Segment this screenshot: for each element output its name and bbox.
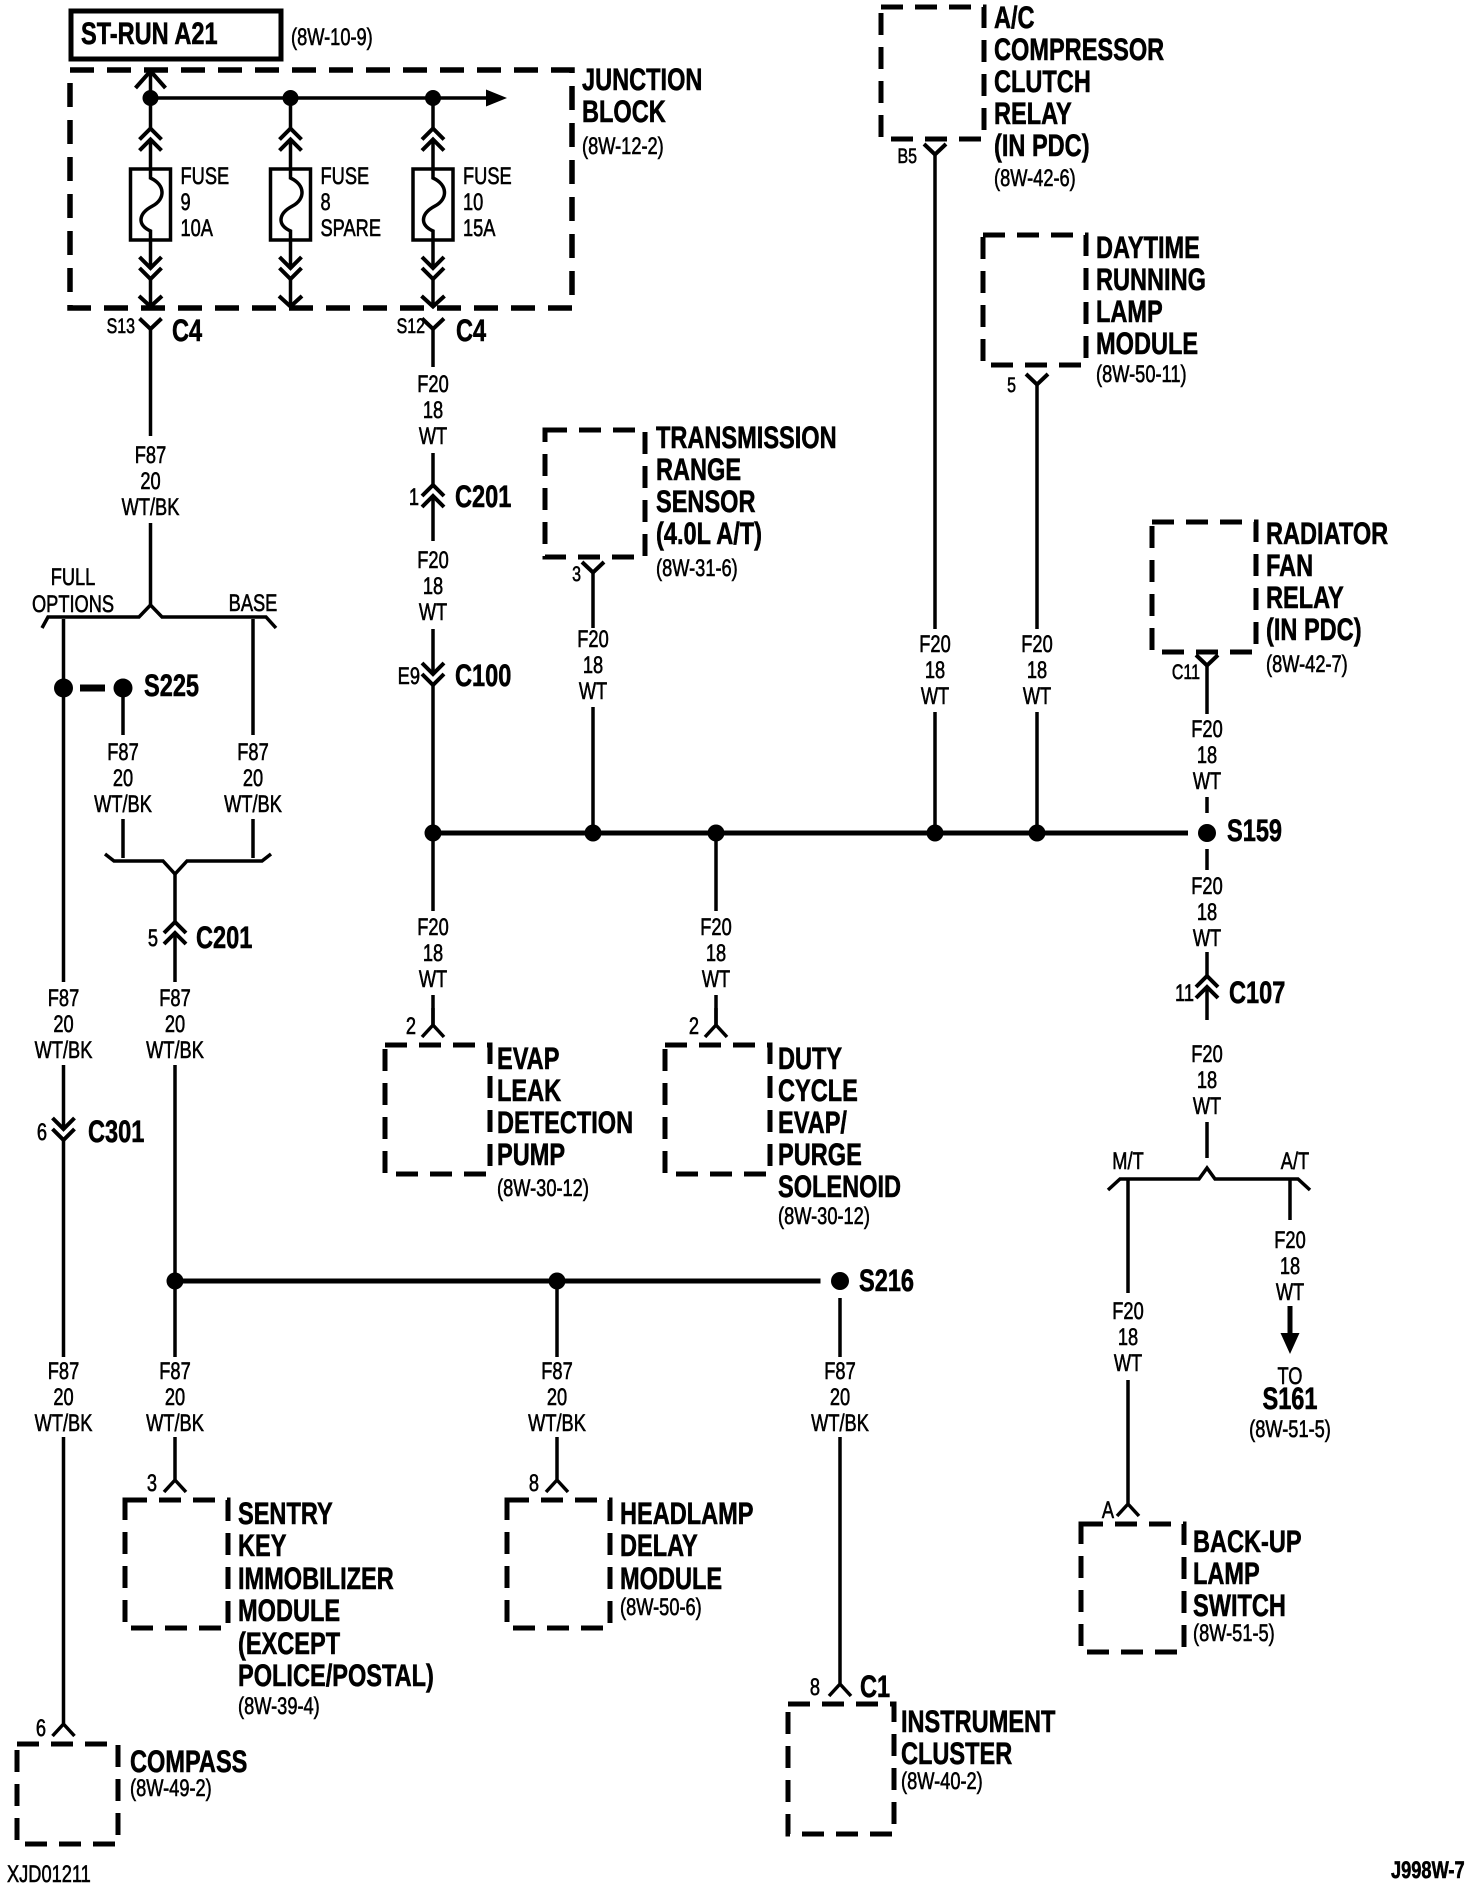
svg-text:RUNNING: RUNNING [1096,262,1206,297]
svg-text:FUSE: FUSE [463,163,512,190]
svg-text:WT: WT [702,966,731,993]
svg-text:F87: F87 [48,1358,79,1385]
svg-text:E9: E9 [398,663,420,690]
svg-text:EVAP: EVAP [497,1041,559,1076]
svg-text:(8W-42-7): (8W-42-7) [1266,651,1348,678]
svg-text:CLUSTER: CLUSTER [901,1736,1012,1771]
svg-text:1: 1 [409,484,419,511]
svg-text:18: 18 [423,573,443,600]
svg-text:18: 18 [1280,1253,1300,1280]
svg-text:F20: F20 [1191,1041,1222,1068]
svg-text:F87: F87 [159,1358,190,1385]
svg-text:6: 6 [37,1119,47,1146]
svg-text:(8W-42-6): (8W-42-6) [994,165,1076,192]
svg-text:(8W-39-4): (8W-39-4) [238,1693,320,1720]
svg-text:SOLENOID: SOLENOID [778,1169,901,1204]
svg-text:C107: C107 [1229,975,1285,1010]
svg-text:BLOCK: BLOCK [582,94,666,129]
svg-text:WT/BK: WT/BK [35,1410,93,1437]
svg-text:20: 20 [140,468,160,495]
svg-text:C4: C4 [172,313,203,348]
svg-text:3: 3 [147,1470,157,1497]
svg-text:9: 9 [181,189,191,216]
svg-text:20: 20 [830,1384,850,1411]
svg-text:FUSE: FUSE [181,163,230,190]
svg-text:18: 18 [1197,742,1217,769]
svg-text:WT: WT [419,423,448,450]
svg-text:RADIATOR: RADIATOR [1266,516,1388,551]
svg-text:XJD01211: XJD01211 [7,1861,91,1888]
svg-text:(8W-30-12): (8W-30-12) [497,1175,589,1202]
svg-text:(8W-50-11): (8W-50-11) [1096,361,1187,388]
svg-text:(8W-31-6): (8W-31-6) [656,555,738,582]
svg-text:18: 18 [1197,1067,1217,1094]
svg-text:F20: F20 [1021,631,1052,658]
svg-text:6: 6 [36,1715,46,1742]
svg-text:FUSE: FUSE [321,163,370,190]
svg-text:WT/BK: WT/BK [528,1410,586,1437]
svg-text:MODULE: MODULE [238,1593,340,1628]
svg-text:M/T: M/T [1112,1148,1144,1175]
svg-text:WT: WT [419,599,448,626]
svg-text:C201: C201 [196,920,252,955]
svg-text:COMPRESSOR: COMPRESSOR [994,32,1164,67]
svg-text:CLUTCH: CLUTCH [994,64,1091,99]
svg-text:5: 5 [1007,374,1016,397]
svg-text:F87: F87 [541,1358,572,1385]
svg-text:RELAY: RELAY [1266,580,1344,615]
svg-text:PUMP: PUMP [497,1137,565,1172]
svg-text:CYCLE: CYCLE [778,1073,858,1108]
svg-text:INSTRUMENT: INSTRUMENT [901,1704,1055,1739]
svg-text:S225: S225 [144,668,199,703]
svg-text:WT/BK: WT/BK [35,1037,93,1064]
svg-text:F20: F20 [1112,1298,1143,1325]
svg-text:20: 20 [243,765,263,792]
svg-text:F87: F87 [159,985,190,1012]
svg-text:C100: C100 [455,658,511,693]
svg-text:FAN: FAN [1266,548,1313,583]
svg-text:(8W-30-12): (8W-30-12) [778,1203,870,1230]
svg-text:KEY: KEY [238,1528,287,1563]
svg-text:WT: WT [1114,1350,1143,1377]
svg-text:WT: WT [1023,683,1052,710]
svg-text:RANGE: RANGE [656,452,741,487]
svg-text:S216: S216 [859,1263,914,1298]
svg-text:LAMP: LAMP [1096,294,1163,329]
svg-text:(EXCEPT: (EXCEPT [238,1626,340,1661]
svg-text:(8W-50-6): (8W-50-6) [620,1594,702,1621]
svg-text:C301: C301 [88,1114,144,1149]
svg-text:2: 2 [689,1013,699,1040]
svg-text:WT: WT [1276,1279,1305,1306]
svg-text:LAMP: LAMP [1193,1556,1260,1591]
svg-text:WT/BK: WT/BK [122,494,180,521]
svg-text:DELAY: DELAY [620,1528,698,1563]
svg-text:C11: C11 [1172,661,1200,684]
svg-text:F20: F20 [417,914,448,941]
svg-text:F20: F20 [919,631,950,658]
svg-text:IMMOBILIZER: IMMOBILIZER [238,1561,394,1596]
svg-text:FULL: FULL [51,564,96,591]
svg-text:(8W-51-5): (8W-51-5) [1193,1620,1275,1647]
svg-text:8: 8 [810,1674,820,1701]
svg-text:SENTRY: SENTRY [238,1496,333,1531]
svg-text:WT/BK: WT/BK [94,791,152,818]
svg-text:A/T: A/T [1281,1148,1310,1175]
svg-text:TRANSMISSION: TRANSMISSION [656,420,837,455]
svg-text:BACK-UP: BACK-UP [1193,1524,1302,1559]
svg-text:2: 2 [406,1013,416,1040]
svg-text:F87: F87 [237,739,268,766]
svg-text:WT: WT [921,683,950,710]
svg-text:C1: C1 [860,1669,890,1704]
svg-text:A/C: A/C [994,0,1035,35]
svg-text:18: 18 [423,940,443,967]
svg-text:BASE: BASE [229,590,278,617]
svg-text:F20: F20 [577,626,608,653]
svg-text:18: 18 [706,940,726,967]
svg-text:C4: C4 [456,313,487,348]
svg-text:F87: F87 [107,739,138,766]
svg-text:F20: F20 [700,914,731,941]
svg-text:S159: S159 [1227,813,1282,848]
svg-text:F20: F20 [1274,1227,1305,1254]
svg-text:C201: C201 [455,479,511,514]
svg-text:DUTY: DUTY [778,1041,842,1076]
svg-text:MODULE: MODULE [620,1561,722,1596]
svg-text:ST-RUN A21: ST-RUN A21 [81,16,218,51]
svg-text:(4.0L A/T): (4.0L A/T) [656,516,762,551]
svg-text:WT/BK: WT/BK [224,791,282,818]
svg-text:S13: S13 [107,315,135,338]
svg-text:(IN PDC): (IN PDC) [994,128,1090,163]
svg-text:3: 3 [572,563,581,586]
svg-text:SWITCH: SWITCH [1193,1588,1286,1623]
svg-text:S161: S161 [1262,1381,1317,1416]
svg-text:S12: S12 [397,315,425,338]
svg-text:EVAP/: EVAP/ [778,1105,847,1140]
svg-text:15A: 15A [463,215,495,242]
svg-text:DETECTION: DETECTION [497,1105,633,1140]
svg-text:F20: F20 [417,371,448,398]
svg-text:20: 20 [53,1384,73,1411]
svg-text:B5: B5 [897,145,917,168]
svg-text:JUNCTION: JUNCTION [582,62,702,97]
svg-text:20: 20 [165,1384,185,1411]
svg-text:18: 18 [1027,657,1047,684]
svg-text:18: 18 [925,657,945,684]
svg-text:20: 20 [53,1011,73,1038]
svg-text:WT/BK: WT/BK [811,1410,869,1437]
svg-text:F20: F20 [417,547,448,574]
svg-text:COMPASS: COMPASS [130,1744,247,1779]
svg-text:20: 20 [165,1011,185,1038]
svg-text:F20: F20 [1191,873,1222,900]
svg-text:POLICE/POSTAL): POLICE/POSTAL) [238,1658,434,1693]
svg-text:(8W-10-9): (8W-10-9) [291,24,373,51]
svg-text:(IN PDC): (IN PDC) [1266,612,1362,647]
svg-text:18: 18 [1197,899,1217,926]
svg-text:WT/BK: WT/BK [146,1410,204,1437]
svg-text:20: 20 [547,1384,567,1411]
svg-text:(8W-51-5): (8W-51-5) [1249,1416,1331,1443]
svg-text:PURGE: PURGE [778,1137,862,1172]
svg-text:WT: WT [419,966,448,993]
svg-text:10A: 10A [181,215,213,242]
svg-text:WT: WT [579,678,608,705]
svg-text:8: 8 [529,1470,539,1497]
svg-text:(8W-40-2): (8W-40-2) [901,1768,983,1795]
svg-text:HEADLAMP: HEADLAMP [620,1496,754,1531]
svg-text:MODULE: MODULE [1096,326,1198,361]
svg-text:18: 18 [423,397,443,424]
svg-text:WT/BK: WT/BK [146,1037,204,1064]
svg-text:(8W-12-2): (8W-12-2) [582,133,664,160]
svg-text:WT: WT [1193,925,1222,952]
svg-text:20: 20 [113,765,133,792]
svg-text:DAYTIME: DAYTIME [1096,230,1200,265]
svg-text:5: 5 [148,925,158,952]
svg-text:SENSOR: SENSOR [656,484,756,519]
svg-text:SPARE: SPARE [321,215,381,242]
svg-text:F87: F87 [135,442,166,469]
svg-text:OPTIONS: OPTIONS [32,591,114,618]
svg-text:F87: F87 [48,985,79,1012]
svg-text:LEAK: LEAK [497,1073,562,1108]
svg-text:A: A [1102,1497,1114,1524]
svg-text:8: 8 [321,189,331,216]
svg-text:11: 11 [1175,980,1194,1007]
svg-text:10: 10 [463,189,483,216]
svg-text:RELAY: RELAY [994,96,1072,131]
svg-text:WT: WT [1193,1093,1222,1120]
svg-text:F87: F87 [824,1358,855,1385]
svg-text:J998W-7: J998W-7 [1391,1857,1465,1884]
svg-text:F20: F20 [1191,716,1222,743]
svg-text:(8W-49-2): (8W-49-2) [130,1775,212,1802]
svg-text:WT: WT [1193,768,1222,795]
svg-text:18: 18 [583,652,603,679]
svg-text:18: 18 [1118,1324,1138,1351]
